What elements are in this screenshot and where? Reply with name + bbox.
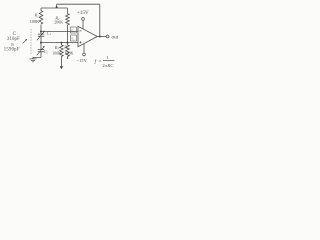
wire top feedback rail (57, 3, 100, 5)
svg-text:100K: 100K (65, 51, 74, 55)
wire R4 bottom lead to -15V (67, 56, 69, 59)
svg-text:−15V: −15V (76, 58, 87, 63)
svg-text:+15V: +15V (77, 10, 89, 16)
terminal -15V circle (83, 53, 86, 56)
wire stub rail to R1-R2 wire (56, 4, 58, 8)
wire inverting input (41, 31, 78, 33)
wire V- pin stub (83, 44, 85, 53)
wire C2 to ground (33, 57, 41, 58)
gang arrow (23, 40, 27, 44)
svg-text:200K: 200K (54, 20, 63, 25)
wire output (97, 36, 106, 38)
capacitor C1 variable (37, 31, 45, 43)
ground (under R3) (60, 66, 64, 69)
wire R2 bottom lead to non-inverting wire (67, 25, 69, 43)
node R3 tap (60, 42, 62, 44)
formula f = 1/2piRC (95, 55, 115, 68)
op-amp plus sign (79, 41, 81, 43)
label capacitor C heading (4, 32, 20, 53)
wire R1 top lead (40, 8, 42, 11)
wire R1 bottom lead (40, 25, 42, 32)
svg-text:1590pF: 1590pF (4, 48, 20, 53)
resistor R2 (66, 14, 70, 25)
node inverting input / C1 (40, 31, 42, 33)
resistor R4 (66, 45, 70, 56)
pin box 2 (inverting) (70, 27, 76, 33)
svg-text:out: out (112, 35, 119, 41)
mechanical gang dashed line (30, 29, 32, 55)
node junction rail stub (56, 6, 58, 8)
op-amp U1 (78, 26, 97, 46)
node R2-R4 junction (67, 42, 69, 44)
resistor R3 (60, 45, 64, 56)
svg-text:1: 1 (106, 55, 108, 60)
capacitor C2 variable (37, 43, 45, 58)
node C1-C2 midpoint (40, 42, 42, 44)
op-amp minus sign (79, 30, 81, 32)
svg-text:100K: 100K (30, 19, 40, 24)
wire feedback vertical to output (99, 4, 101, 36)
svg-text:2πRC: 2πRC (102, 63, 114, 68)
wire R2 top lead (67, 8, 69, 14)
resistor R1 (39, 11, 43, 24)
wire non-inverting input (41, 42, 78, 44)
terminal output circle (106, 35, 109, 38)
wire R3 top lead (60, 43, 62, 45)
ground (left, under C2) (30, 59, 37, 62)
wire R3 bottom lead (60, 56, 62, 67)
terminal +15V circle (82, 18, 85, 21)
wire R4 top lead (67, 43, 69, 45)
svg-text:100K: 100K (52, 51, 61, 55)
wire V+ pin stub (82, 20, 84, 28)
wire R1-R2 top wire (41, 7, 68, 9)
pin box 3 (non-inverting) (70, 35, 76, 41)
node output feedback (99, 36, 101, 38)
